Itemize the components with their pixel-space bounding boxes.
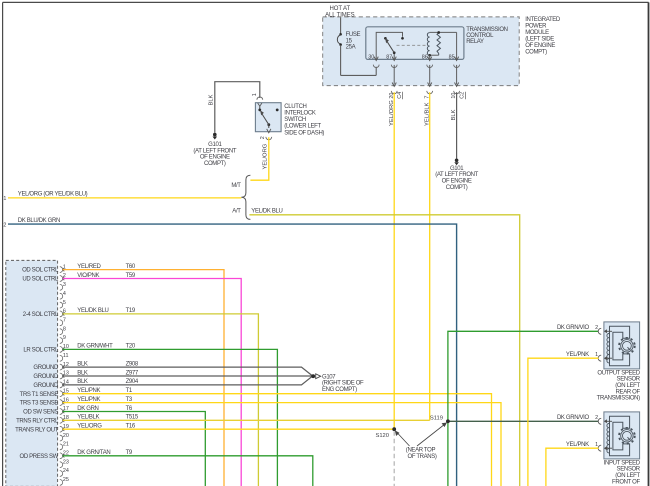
svg-text:OD PRESS SW: OD PRESS SW [20, 454, 59, 460]
svg-text:SIDE OF DASH): SIDE OF DASH) [284, 130, 324, 136]
svg-text:YEL/PNK: YEL/PNK [566, 442, 589, 448]
svg-text:CONTROL: CONTROL [466, 33, 494, 39]
svg-text:G101: G101 [208, 142, 222, 148]
svg-text:DK GRN/VIO: DK GRN/VIO [557, 415, 590, 421]
svg-text:DK GRN/VIO: DK GRN/VIO [557, 325, 590, 331]
svg-text:G107: G107 [322, 374, 336, 380]
svg-text:YEL/DK BLU: YEL/DK BLU [251, 209, 282, 215]
svg-text:OD SW SENS: OD SW SENS [23, 410, 58, 416]
svg-text:24: 24 [63, 468, 69, 474]
svg-text:5: 5 [63, 300, 66, 306]
svg-text:YEL/ORG: YEL/ORG [263, 143, 269, 169]
svg-text:FUSE: FUSE [346, 32, 361, 38]
svg-text:HOT AT: HOT AT [330, 6, 351, 12]
svg-text:S119: S119 [430, 415, 443, 421]
svg-text:C2: C2 [460, 92, 466, 99]
svg-text:TRANSMISSION): TRANSMISSION) [597, 396, 640, 402]
svg-text:11: 11 [63, 353, 69, 359]
svg-text:GROUND: GROUND [33, 374, 59, 380]
svg-text:4: 4 [63, 291, 66, 297]
svg-text:OF ENGINE: OF ENGINE [442, 179, 472, 185]
svg-text:ENG COMPT): ENG COMPT) [322, 387, 357, 393]
svg-text:1: 1 [595, 442, 598, 448]
svg-text:G101: G101 [450, 166, 464, 172]
svg-text:2: 2 [595, 325, 598, 331]
svg-text:23: 23 [63, 459, 69, 465]
svg-text:25: 25 [63, 477, 69, 483]
svg-text:YEL/ORG (OR YEL/DK BLU): YEL/ORG (OR YEL/DK BLU) [18, 192, 88, 198]
svg-text:TRANS RLY OUT: TRANS RLY OUT [15, 427, 59, 433]
svg-text:1: 1 [252, 93, 258, 96]
svg-text:SENSOR: SENSOR [617, 467, 641, 473]
svg-text:(LOWER LEFT: (LOWER LEFT [284, 124, 321, 130]
svg-text:(ON LEFT: (ON LEFT [615, 473, 640, 479]
svg-text:1: 1 [3, 196, 6, 202]
svg-text:(ON LEFT: (ON LEFT [615, 383, 640, 389]
svg-text:TRANSMISSION: TRANSMISSION [466, 27, 507, 33]
svg-text:2: 2 [3, 223, 6, 229]
svg-text:30: 30 [368, 54, 374, 60]
svg-text:YEL/PNK: YEL/PNK [566, 352, 589, 358]
svg-text:TRNS RLY CTRL: TRNS RLY CTRL [16, 418, 59, 424]
svg-text:INTERLOCK: INTERLOCK [284, 111, 316, 117]
svg-text:GROUND: GROUND [33, 383, 59, 389]
svg-text:C4: C4 [397, 92, 403, 99]
svg-text:RELAY: RELAY [466, 39, 484, 45]
svg-text:(RIGHT SIDE OF: (RIGHT SIDE OF [322, 381, 364, 387]
svg-text:2-4 SOL CTRL: 2-4 SOL CTRL [23, 312, 59, 318]
svg-text:FRONT OF: FRONT OF [612, 479, 640, 485]
svg-text:21: 21 [63, 442, 69, 448]
svg-text:86: 86 [422, 54, 428, 60]
svg-text:OF TRANS): OF TRANS) [408, 454, 437, 460]
svg-text:COMPT): COMPT) [204, 161, 226, 167]
svg-text:TRS T1 SENSE: TRS T1 SENSE [20, 392, 59, 398]
svg-text:DK BLU/DK GRN: DK BLU/DK GRN [18, 218, 60, 224]
svg-text:BLK: BLK [209, 94, 215, 105]
svg-text:87: 87 [386, 54, 392, 60]
svg-text:(AT LEFT FRONT: (AT LEFT FRONT [193, 148, 236, 154]
svg-text:3: 3 [63, 282, 66, 288]
svg-text:2: 2 [595, 415, 598, 421]
svg-text:1: 1 [595, 352, 598, 358]
svg-text:OUTPUT SPEED: OUTPUT SPEED [597, 370, 640, 376]
svg-text:COMPT): COMPT) [446, 185, 468, 191]
svg-text:MODULE: MODULE [525, 30, 549, 36]
svg-text:SENSOR: SENSOR [617, 377, 641, 383]
svg-text:COMPT): COMPT) [525, 49, 547, 55]
svg-text:TRS T3 SENSE: TRS T3 SENSE [20, 401, 59, 407]
svg-text:(AT LEFT FRONT: (AT LEFT FRONT [435, 172, 478, 178]
svg-text:INTEGRATED: INTEGRATED [525, 17, 561, 23]
svg-text:LR SOL CTRL: LR SOL CTRL [23, 348, 59, 354]
svg-text:25A: 25A [346, 45, 356, 51]
svg-text:OD SOL CTRL: OD SOL CTRL [22, 268, 59, 274]
svg-text:7: 7 [63, 318, 66, 324]
svg-text:(LEFT SIDE: (LEFT SIDE [525, 36, 554, 42]
svg-text:REAR OF: REAR OF [616, 389, 641, 395]
svg-text:20: 20 [63, 433, 69, 439]
svg-text:85: 85 [449, 54, 455, 60]
svg-text:SWITCH: SWITCH [284, 117, 306, 123]
svg-text:GROUND: GROUND [33, 365, 59, 371]
svg-text:8: 8 [63, 326, 66, 332]
svg-text:CLUTCH: CLUTCH [284, 104, 306, 110]
svg-text:2: 2 [260, 136, 266, 139]
svg-text:INPUT SPEED: INPUT SPEED [604, 460, 641, 466]
svg-text:15: 15 [346, 38, 353, 44]
svg-text:9: 9 [63, 335, 66, 341]
svg-text:OF ENGINE: OF ENGINE [200, 155, 230, 161]
svg-text:S120: S120 [375, 433, 389, 439]
svg-text:(NEAR TOP: (NEAR TOP [406, 448, 436, 454]
svg-text:M/T: M/T [231, 183, 241, 189]
svg-text:POWER: POWER [525, 23, 547, 29]
svg-text:A/T: A/T [232, 209, 241, 215]
svg-text:OF ENGINE: OF ENGINE [525, 43, 555, 49]
svg-text:ALL TIMES: ALL TIMES [325, 13, 355, 19]
svg-text:UD SOL CTRL: UD SOL CTRL [22, 277, 59, 283]
